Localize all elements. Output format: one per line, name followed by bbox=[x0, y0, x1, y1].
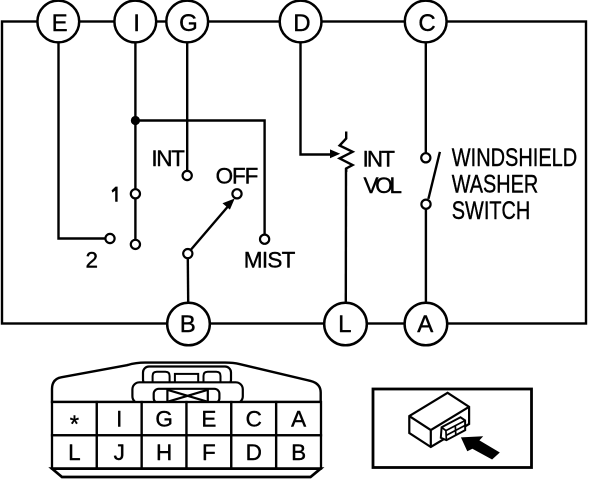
connector pin G circle bbox=[166, 1, 208, 43]
wire washer switch bottom contact to connector A bbox=[425, 209, 427, 303]
location arrow bbox=[461, 436, 500, 459]
contact MIST circle bbox=[260, 235, 269, 244]
svg-text:A: A bbox=[417, 311, 433, 338]
wiper arm arrowhead bbox=[223, 199, 235, 210]
connector pin E circle bbox=[37, 1, 79, 43]
wire outer frame bbox=[2, 22, 586, 324]
svg-text:B: B bbox=[291, 440, 306, 465]
connector pin D circle bbox=[280, 1, 322, 43]
relay connector block bbox=[441, 417, 465, 440]
svg-text:OFF: OFF bbox=[216, 164, 259, 189]
svg-text:SWITCH: SWITCH bbox=[452, 197, 530, 225]
svg-text:WASHER: WASHER bbox=[452, 170, 538, 198]
svg-text:J: J bbox=[114, 440, 125, 465]
svg-text:*: * bbox=[70, 411, 79, 438]
svg-text:VOL: VOL bbox=[364, 173, 403, 198]
connector bottom skirt bbox=[52, 469, 321, 477]
wire D branch to resistor wiper arrow bbox=[301, 43, 334, 155]
relay location box frame bbox=[373, 389, 532, 468]
latch X cross bbox=[167, 390, 207, 402]
relay body top face near edges bbox=[409, 407, 469, 447]
washer switch arm bbox=[428, 152, 440, 199]
latch X right edge bbox=[207, 390, 209, 403]
connector lower collar bbox=[132, 382, 242, 403]
svg-text:D: D bbox=[293, 10, 310, 37]
label 1 position bbox=[112, 187, 118, 202]
svg-text:B: B bbox=[180, 311, 196, 338]
connector collar middle tab bbox=[175, 374, 198, 384]
svg-text:C: C bbox=[246, 407, 262, 432]
contact INT circle bbox=[183, 171, 192, 180]
node junction dot on I line bbox=[131, 116, 140, 125]
connector housing outline bbox=[52, 363, 321, 402]
wire G branch to INT contact bbox=[186, 43, 188, 171]
connector pin A circle bbox=[405, 303, 448, 346]
contact 1 circle bbox=[131, 189, 140, 198]
connector latch box with X bbox=[154, 389, 220, 404]
resistor INT VOL zigzag bbox=[340, 132, 353, 173]
connector pin L circle bbox=[324, 303, 367, 346]
svg-text:F: F bbox=[202, 440, 216, 465]
wire C branch to washer switch top contact bbox=[425, 43, 427, 154]
wiper switch arm toward OFF bbox=[188, 205, 229, 253]
svg-text:C: C bbox=[418, 10, 435, 37]
contact below 1 circle bbox=[131, 240, 140, 249]
wire wiper pivot to connector B bbox=[187, 258, 190, 303]
contact OFF circle bbox=[232, 189, 241, 198]
svg-text:E: E bbox=[201, 407, 216, 432]
wire resistor to connector L bbox=[345, 168, 348, 303]
wire I branch from connector I to contact 1 bbox=[134, 43, 136, 190]
wire E branch to contact 2 bbox=[59, 43, 106, 239]
svg-text:G: G bbox=[179, 10, 198, 37]
relay connector block inner lines bbox=[442, 421, 465, 440]
connector upper collar bbox=[143, 367, 231, 386]
pin grid cells bbox=[52, 402, 321, 469]
svg-text:A: A bbox=[291, 407, 306, 432]
svg-text:MIST: MIST bbox=[244, 248, 296, 273]
svg-text:E: E bbox=[52, 10, 68, 37]
latch X left edge bbox=[166, 390, 168, 403]
wire junction to MIST contact bbox=[135, 121, 264, 235]
svg-text:H: H bbox=[156, 440, 172, 465]
svg-text:INT: INT bbox=[363, 146, 396, 171]
washer switch bottom contact circle bbox=[421, 200, 430, 209]
svg-text:I: I bbox=[116, 407, 122, 432]
connector collar right tab bbox=[204, 372, 221, 384]
svg-text:G: G bbox=[155, 407, 173, 432]
relay body outline bbox=[409, 393, 469, 447]
washer switch top contact circle bbox=[421, 153, 430, 162]
connector pin C circle bbox=[405, 1, 447, 43]
connector pin I circle bbox=[114, 1, 156, 43]
svg-text:WINDSHIELD: WINDSHIELD bbox=[452, 144, 577, 172]
svg-text:I: I bbox=[133, 10, 140, 37]
resistor wiper arrowhead bbox=[330, 149, 340, 158]
svg-text:L: L bbox=[338, 311, 351, 338]
connector pin B circle bbox=[167, 303, 210, 346]
connector collar left tab bbox=[153, 372, 170, 384]
wire between contact 1 and lower contact bbox=[134, 198, 136, 239]
svg-text:L: L bbox=[68, 440, 81, 465]
svg-text:2: 2 bbox=[86, 247, 99, 272]
svg-text:D: D bbox=[246, 440, 262, 465]
svg-text:INT: INT bbox=[151, 146, 185, 171]
wiper pivot contact circle bbox=[183, 249, 192, 258]
contact 2 circle bbox=[105, 234, 114, 243]
